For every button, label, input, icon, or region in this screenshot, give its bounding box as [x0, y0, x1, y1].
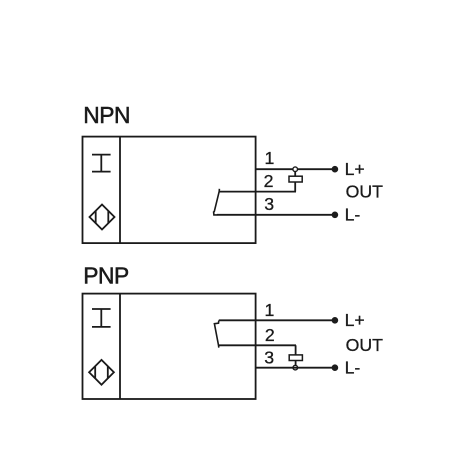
load resistor R (NPN) : vertical lead top [294, 172, 296, 177]
target / actuator symbol (NPN) [92, 155, 111, 172]
proximity sensor diamond symbol (NPN) [90, 205, 115, 230]
pin 1 wire (NPN, to L+) [256, 168, 335, 170]
pin 2 wire (NPN, OUT) [219, 191, 296, 193]
pin 3 wire (PNP, to L-) [256, 367, 335, 369]
svg-text:L-: L- [345, 358, 361, 378]
L- node dot (NPN) [332, 212, 339, 219]
target / actuator symbol (PNP) [92, 309, 111, 327]
L+ node dot (PNP) [332, 317, 339, 324]
proximity sensor diamond symbol (PNP) [89, 360, 114, 385]
L- node dot (PNP) [332, 364, 339, 371]
switch contact arm (NPN output transistor) [214, 189, 220, 215]
pin 2 wire (PNP, OUT) [219, 344, 296, 346]
svg-text:PNP: PNP [83, 262, 129, 288]
load resistor R (NPN) : vertical lead bottom [294, 182, 296, 192]
L+ node dot (NPN) [332, 166, 339, 173]
junction circle on pin1 wire (NPN) [293, 167, 298, 172]
pin 1 wire (PNP, to L+) [219, 319, 335, 321]
sensor box (PNP) [83, 294, 256, 399]
load resistor R (PNP) : body [289, 355, 302, 361]
load resistor R (PNP) : vertical lead top [295, 345, 297, 355]
load resistor R (PNP) : vertical lead bottom [295, 361, 297, 366]
switch contact arm (PNP output transistor) [214, 321, 218, 348]
svg-text:1: 1 [264, 300, 274, 320]
svg-text:2: 2 [265, 325, 275, 345]
svg-text:L+: L+ [345, 310, 365, 330]
svg-text:OUT: OUT [346, 181, 384, 201]
sensor box divider (NPN) [119, 137, 121, 244]
load resistor R (NPN) : body [289, 176, 302, 182]
sensor box divider (PNP) [119, 294, 121, 399]
sensor box (NPN) [83, 137, 256, 244]
svg-text:3: 3 [264, 194, 274, 214]
pin 3 wire (NPN, to L-) [217, 214, 335, 216]
svg-text:1: 1 [264, 148, 274, 168]
svg-text:3: 3 [264, 347, 274, 367]
svg-text:L+: L+ [345, 159, 365, 179]
svg-text:NPN: NPN [83, 102, 130, 128]
svg-text:L-: L- [345, 205, 361, 225]
svg-text:2: 2 [264, 171, 274, 191]
junction circle on pin3 wire (PNP) [293, 365, 298, 370]
svg-text:OUT: OUT [346, 335, 384, 355]
